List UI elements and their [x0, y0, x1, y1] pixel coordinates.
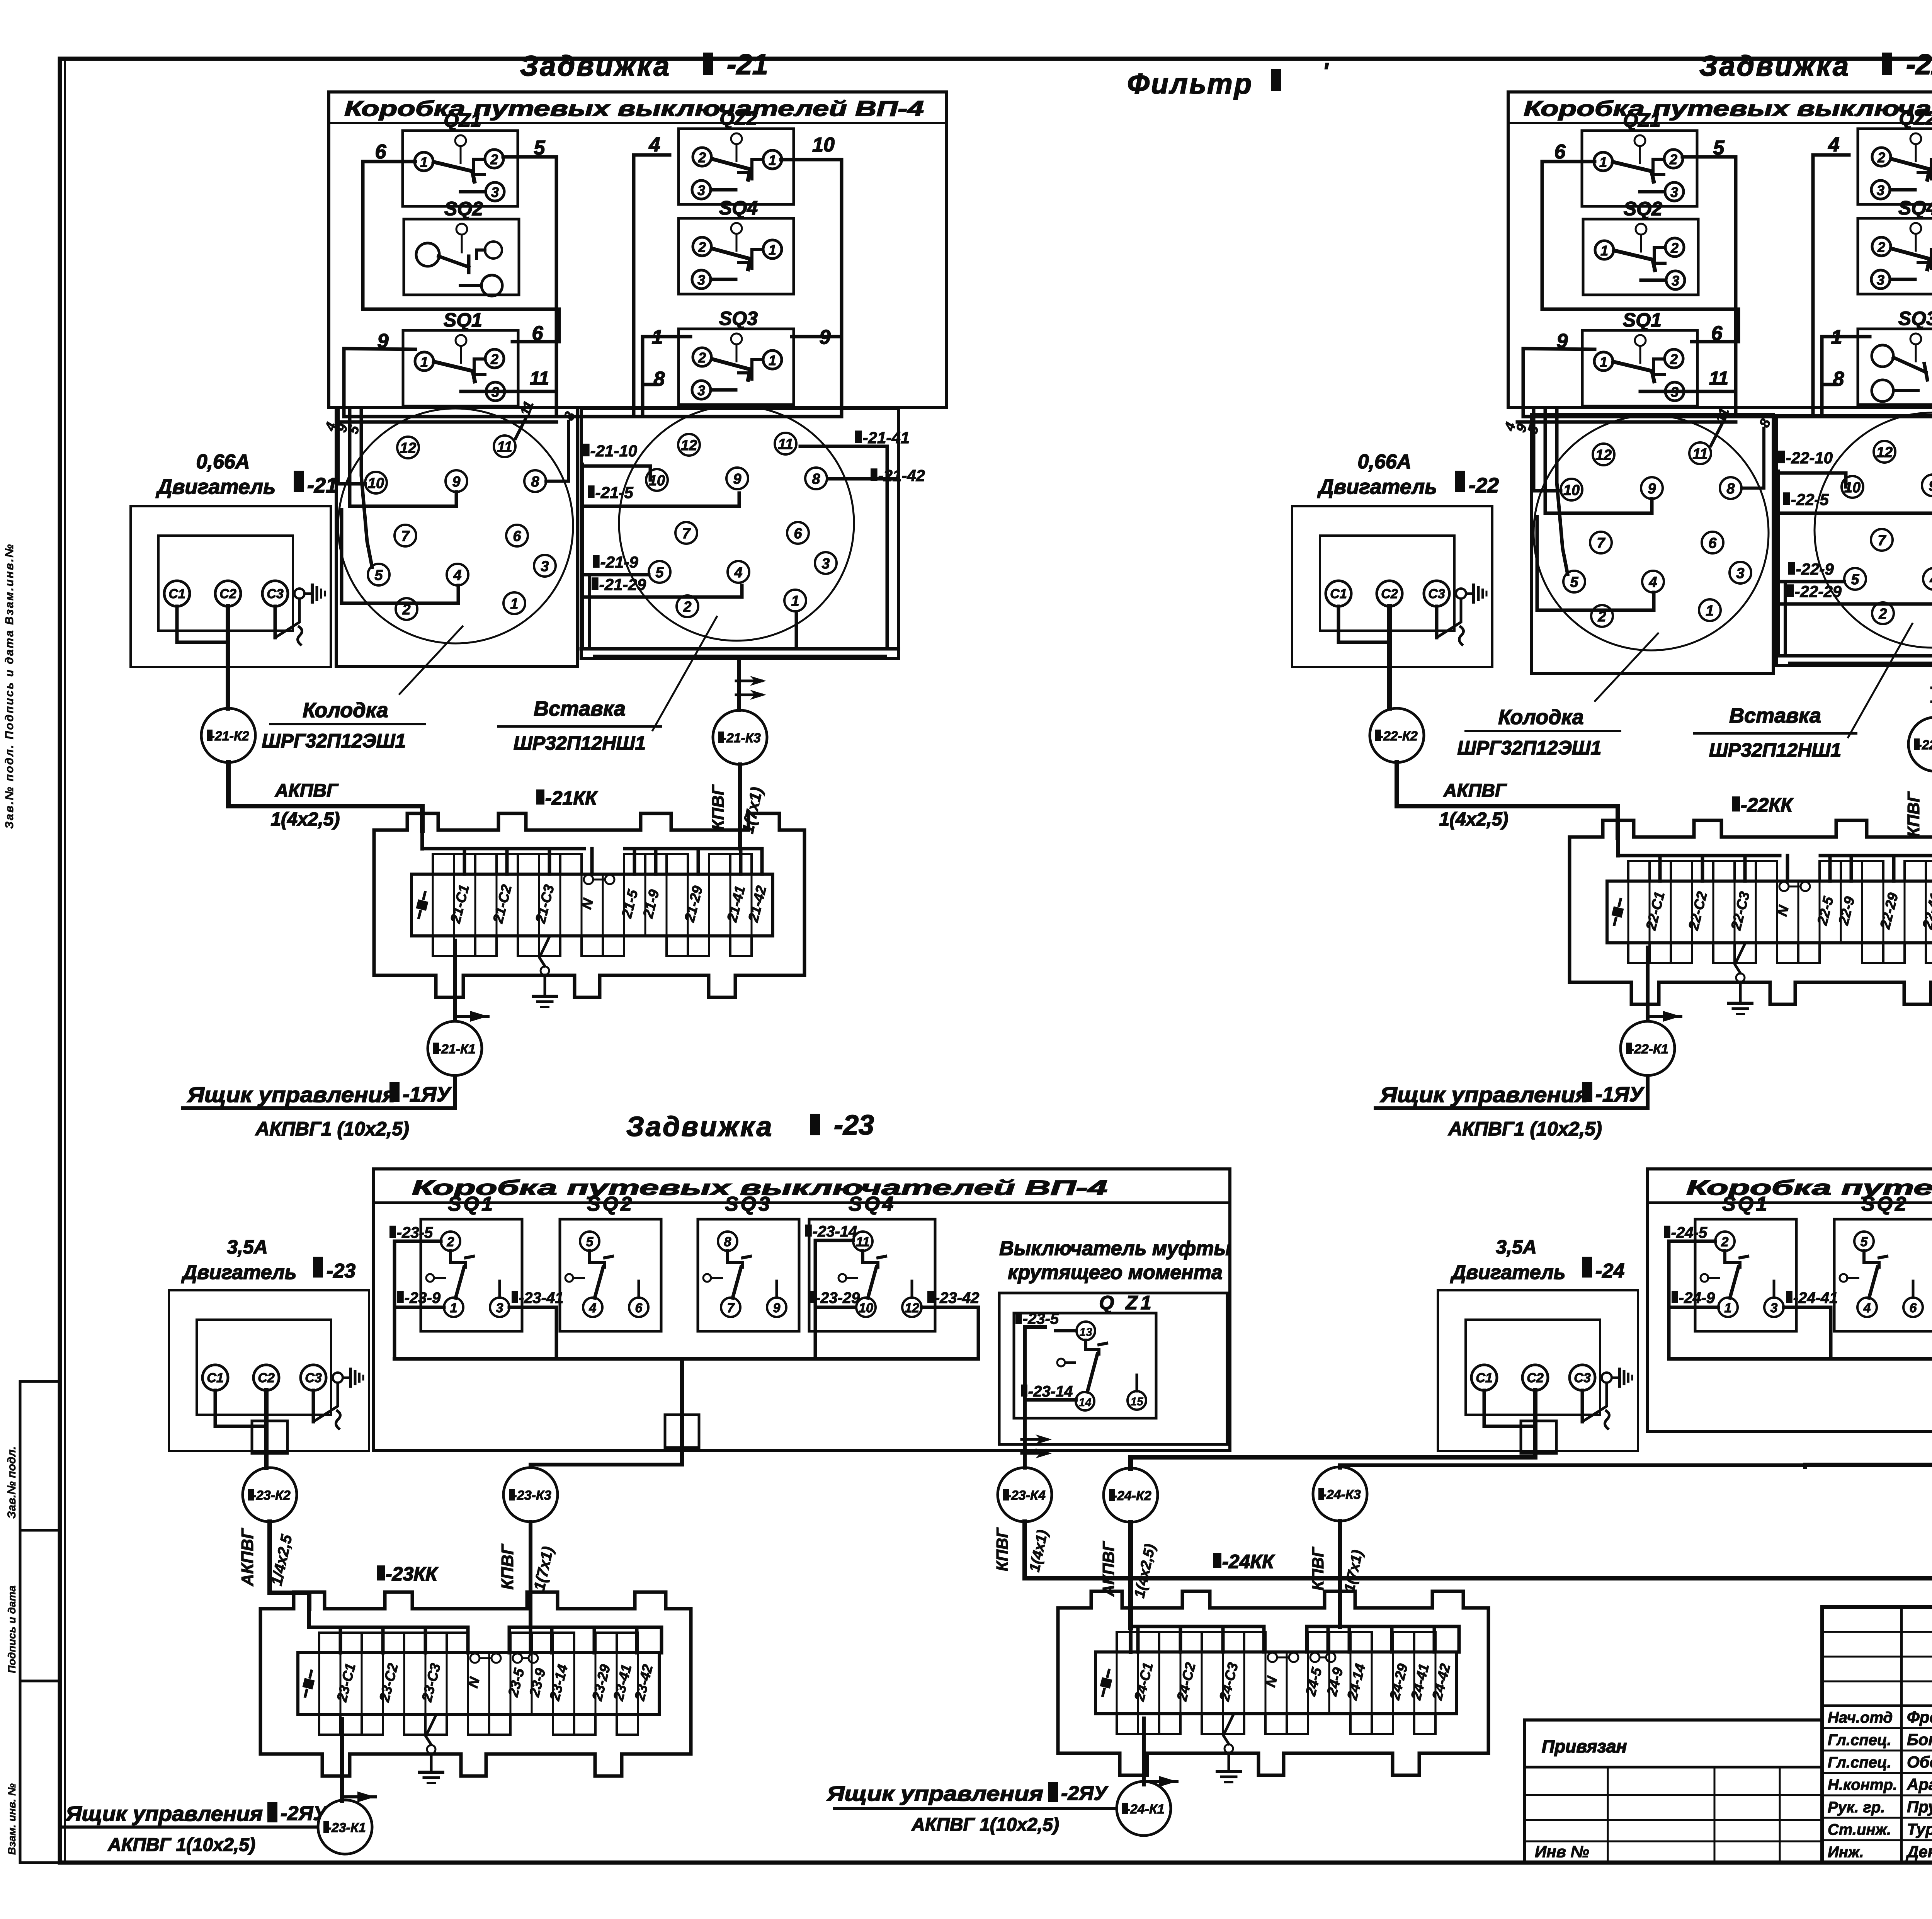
svg-text:-23-29: -23-29 [815, 1290, 860, 1307]
svg-text:11: 11 [530, 368, 549, 389]
svg-text:-21: -21 [727, 48, 768, 80]
svg-text:13: 13 [1079, 1326, 1092, 1339]
svg-text:ШРГ32П12ЭШ1: ШРГ32П12ЭШ1 [1458, 737, 1602, 759]
outgoing cable to control box (-22) [1646, 948, 1650, 1021]
terminal block -24КК feed wires [1129, 1626, 1133, 1652]
svg-text:Ящик управления: Ящик управления [65, 1802, 263, 1825]
svg-text:3: 3 [1770, 1301, 1778, 1315]
svg-text:5: 5 [1570, 574, 1578, 590]
svg-text:-21-К3: -21-К3 [722, 731, 761, 745]
svg-text:SQ2: SQ2 [1861, 1193, 1908, 1215]
svg-text:-21-42: -21-42 [878, 466, 925, 485]
cable marker -21-К2 [226, 667, 230, 708]
svg-text:2: 2 [1670, 240, 1679, 256]
svg-text:0,66А: 0,66А [196, 451, 250, 473]
svg-text:-21-5: -21-5 [595, 483, 634, 502]
svg-text:SQ4: SQ4 [1898, 197, 1932, 219]
svg-text:-22: -22 [1469, 474, 1499, 497]
svg-text:5: 5 [586, 1235, 594, 1249]
terminal labels at switches (-24) [1664, 1226, 1670, 1238]
svg-text:Привязан: Привязан [1542, 1736, 1627, 1756]
svg-text:4: 4 [649, 134, 660, 156]
svg-text:14: 14 [1078, 1396, 1092, 1409]
wiring of switch row (-24) [1669, 1240, 1715, 1243]
svg-text:12: 12 [400, 440, 416, 456]
svg-text:3: 3 [491, 184, 499, 200]
svg-text:-23-К1: -23-К1 [327, 1820, 366, 1835]
terminal block feed wires (-22) [1616, 838, 1620, 856]
svg-text:8: 8 [654, 368, 665, 390]
svg-text:4: 4 [589, 1301, 597, 1315]
svg-text:-1ЯУ: -1ЯУ [1595, 1083, 1645, 1106]
svg-text:4: 4 [1648, 574, 1657, 590]
leader line and label Колодка -21 [400, 626, 463, 694]
wiring of switch row (-23) [395, 1240, 441, 1243]
terminal block -23КК [260, 1592, 691, 1776]
svg-text:Двигатель: Двигатель [1450, 1261, 1565, 1284]
svg-text:Фролов: Фролов [1907, 1708, 1932, 1726]
svg-text:-23-К2: -23-К2 [252, 1488, 291, 1503]
svg-text:7: 7 [1878, 532, 1886, 549]
svg-text:9: 9 [452, 474, 460, 490]
svg-text:4: 4 [1828, 134, 1840, 156]
svg-text:1: 1 [1600, 354, 1607, 370]
limit-switch box ВП-4 (Задвижка -24) [1648, 1169, 1932, 1432]
terminal block -23КК feed wires [307, 1609, 311, 1627]
svg-text:Обозная: Обозная [1907, 1753, 1932, 1771]
cable marker -24-К3 and lead [1340, 1445, 1932, 1468]
outgoing cable to control box (-21) [453, 941, 457, 1021]
svg-text:Двигатель: Двигатель [181, 1261, 296, 1284]
outgoing cable to control box -24 [1142, 1718, 1146, 1785]
svg-text:С3: С3 [267, 587, 284, 601]
svg-text:2: 2 [1877, 239, 1885, 255]
svg-text:АКПВГ1 (10х2,5): АКПВГ1 (10х2,5) [255, 1118, 409, 1140]
svg-text:-23: -23 [327, 1260, 355, 1282]
svg-text:-24-5: -24-5 [1671, 1224, 1708, 1241]
svg-text:-23: -23 [834, 1110, 874, 1141]
terminal block feed wires (-21) [420, 831, 424, 849]
outgoing cable to control box -23 [340, 1719, 344, 1801]
svg-text:С2: С2 [258, 1371, 275, 1385]
cable АКПВГ run to terminal block (-22) [1397, 762, 1618, 838]
svg-text:2: 2 [1721, 1235, 1729, 1249]
svg-text:-22-9: -22-9 [1796, 560, 1834, 578]
svg-text:5: 5 [1851, 572, 1859, 588]
svg-text:9: 9 [1929, 478, 1932, 494]
cable marker -22-К2 [1387, 667, 1392, 708]
svg-text:1: 1 [510, 596, 518, 612]
svg-text:SQ2: SQ2 [1624, 198, 1662, 219]
svg-text:Задвижка: Задвижка [626, 1111, 774, 1142]
svg-text:QZ1: QZ1 [1623, 109, 1660, 131]
svg-text:АКПВГ: АКПВГ [238, 1528, 257, 1586]
cable marker -23-К1 [318, 1800, 372, 1854]
svg-text:6: 6 [1910, 1301, 1917, 1315]
svg-text:11: 11 [1709, 368, 1728, 389]
svg-text:-1ЯУ: -1ЯУ [403, 1083, 452, 1106]
plug connector Колодка -22 [1534, 415, 1769, 650]
svg-text:-22: -22 [1906, 48, 1932, 80]
title block revision table [1822, 1631, 1932, 1633]
svg-text:С2: С2 [219, 587, 236, 601]
svg-text:2: 2 [698, 150, 706, 165]
svg-text:SQ4: SQ4 [849, 1193, 896, 1215]
svg-text:Арансон: Арансон [1906, 1775, 1932, 1793]
svg-text:8: 8 [812, 471, 820, 487]
connector housing rectangle right (-21) [581, 408, 898, 658]
svg-text:3,5А: 3,5А [227, 1236, 268, 1258]
svg-text:SQ3: SQ3 [719, 308, 758, 329]
svg-text:1: 1 [1599, 154, 1607, 170]
svg-text:-23-К4: -23-К4 [1007, 1488, 1046, 1503]
svg-text:-23КК: -23КК [386, 1563, 439, 1585]
svg-text:2: 2 [447, 1235, 454, 1249]
svg-text:С1: С1 [207, 1371, 223, 1385]
limit-switch box ВП-4 (Задвижка -23) [373, 1169, 1230, 1450]
terminal block -24КК ground [1223, 1715, 1233, 1744]
cable marker -22-К1 [1621, 1021, 1675, 1075]
svg-text:-21-41: -21-41 [863, 429, 910, 447]
svg-text:Пруткова: Пруткова [1907, 1798, 1932, 1816]
connector housing rectangle right (-22) [1777, 415, 1932, 665]
svg-text:АКПВГ: АКПВГ [1099, 1541, 1117, 1597]
svg-text:SQ2: SQ2 [587, 1193, 634, 1215]
svg-text:12: 12 [1876, 444, 1893, 461]
svg-text:-22-29: -22-29 [1795, 582, 1842, 601]
svg-text:Инв №: Инв № [1535, 1842, 1589, 1861]
svg-text:-22-К2: -22-К2 [1379, 729, 1418, 743]
svg-text:10: 10 [859, 1301, 873, 1315]
terminal block -21КК [374, 813, 804, 997]
svg-text:Коробка путевых выключат: Коробка путевых выключателей ВП-4 [1524, 96, 1932, 121]
svg-text:Вставка: Вставка [1729, 704, 1821, 727]
svg-text:АКПВГ1 (10х2,5): АКПВГ1 (10х2,5) [1447, 1118, 1602, 1140]
limit-switch box ВП-4 (Задвижка -21) [329, 92, 947, 408]
svg-text:Зав.№ подл.: Зав.№ подл. [5, 1446, 18, 1519]
svg-text:-22-К1: -22-К1 [1630, 1042, 1668, 1056]
svg-text:-24-К3: -24-К3 [1322, 1487, 1361, 1502]
wiring inside switch box -22 [1542, 162, 1738, 342]
svg-text:АКПВГ 1(10х2,5): АКПВГ 1(10х2,5) [107, 1835, 255, 1855]
svg-text:Вставка: Вставка [534, 697, 626, 720]
svg-text:-23-5: -23-5 [397, 1224, 433, 1241]
svg-text:КПВГ: КПВГ [1904, 791, 1923, 837]
svg-text:12: 12 [681, 437, 697, 454]
svg-text:3,5А: 3,5А [1496, 1236, 1537, 1258]
svg-text:11: 11 [778, 436, 793, 453]
connector housing rectangle left (-22) [1532, 415, 1773, 674]
cable marker -23-К4 [998, 1468, 1052, 1522]
svg-text:SQ1: SQ1 [448, 1193, 495, 1215]
svg-text:С2: С2 [1527, 1371, 1544, 1385]
plug connector Вставка -21 [619, 406, 854, 641]
svg-text:5: 5 [374, 567, 383, 584]
svg-text:2: 2 [698, 239, 706, 255]
svg-text:6: 6 [794, 526, 802, 542]
svg-text:-22-10: -22-10 [1786, 449, 1833, 467]
wires/labels to right connector pins (-21) [583, 444, 590, 456]
svg-text:1: 1 [769, 152, 776, 168]
svg-text:2: 2 [698, 350, 706, 366]
svg-text:-21: -21 [307, 474, 337, 497]
svg-text:Ящик управления: Ящик управления [1379, 1082, 1589, 1107]
svg-text:7: 7 [727, 1301, 735, 1315]
leader line and label Вставка -22 [1848, 624, 1912, 737]
svg-text:3: 3 [697, 383, 705, 398]
svg-text:Рук. гр.: Рук. гр. [1828, 1799, 1885, 1816]
svg-text:Задвижка: Задвижка [520, 50, 671, 82]
svg-text:-21-29: -21-29 [599, 575, 646, 594]
svg-text:С3: С3 [1574, 1371, 1591, 1385]
svg-text:С2: С2 [1381, 587, 1398, 601]
terminal block ground (-22) [1735, 944, 1745, 973]
svg-text:С3: С3 [1428, 587, 1445, 601]
cable marker -21-К1 [428, 1021, 482, 1075]
svg-text:Выключатель муфты: Выключатель муфты [999, 1237, 1231, 1260]
terminal block -24КК [1058, 1591, 1488, 1775]
svg-text:1: 1 [791, 593, 799, 609]
svg-text:-24-41: -24-41 [1793, 1290, 1838, 1307]
svg-text:2: 2 [1670, 351, 1678, 367]
motor box Двигатель -21 [131, 506, 331, 667]
wires to left connector pins (-22) [1711, 424, 1722, 446]
svg-text:-21-К2: -21-К2 [211, 729, 249, 743]
svg-text:5: 5 [655, 565, 664, 581]
motor box Двигатель -23 [169, 1290, 369, 1451]
title block signature rows [1822, 1727, 1932, 1729]
svg-text:SQ3: SQ3 [1898, 308, 1932, 329]
svg-text:10: 10 [812, 134, 835, 156]
svg-text:2: 2 [1877, 150, 1885, 165]
svg-text:1(4х2,5): 1(4х2,5) [271, 809, 340, 830]
svg-text:SQ2: SQ2 [444, 198, 483, 219]
cable marker -24-К1 [1117, 1781, 1171, 1836]
svg-text:КПВГ: КПВГ [993, 1527, 1011, 1571]
svg-text:1: 1 [450, 1301, 457, 1315]
svg-text:4: 4 [1863, 1301, 1871, 1315]
svg-text:8: 8 [1833, 368, 1844, 390]
svg-text:3: 3 [1877, 182, 1884, 198]
wires to left connector pins (-21) [515, 417, 527, 439]
plug connector Вставка -22 [1815, 413, 1932, 648]
terminal block -23КК ground [426, 1715, 436, 1745]
svg-text:Туркот: Туркот [1907, 1820, 1932, 1838]
svg-text:6: 6 [513, 528, 521, 544]
motor box Двигатель -22 [1292, 506, 1492, 667]
svg-text:1: 1 [420, 154, 428, 170]
svg-text:1: 1 [420, 354, 428, 370]
svg-text:-23-42: -23-42 [935, 1290, 980, 1307]
svg-text:Двигатель: Двигатель [1317, 475, 1437, 498]
svg-text:Q Z1: Q Z1 [1099, 1292, 1154, 1313]
wiring inside switch box -21 [363, 162, 559, 342]
svg-text:QZ2: QZ2 [719, 107, 757, 129]
svg-text:5: 5 [1861, 1235, 1868, 1249]
svg-text:2: 2 [490, 351, 498, 367]
svg-text:12: 12 [1595, 447, 1612, 463]
svg-text:-23-41: -23-41 [519, 1290, 564, 1307]
junction below motor (-24) [1521, 1421, 1556, 1453]
svg-text:Зав.№ подл. Подпись и дата: Зав.№ подл. Подпись и дата Взам.инв.№ [3, 543, 16, 829]
svg-text:6: 6 [1554, 141, 1566, 163]
plug connector Колодка -21 [338, 408, 573, 643]
svg-text:Двигатель: Двигатель [156, 475, 276, 498]
terminal labels at switches (-23) [389, 1226, 396, 1238]
svg-text:2: 2 [1878, 606, 1887, 622]
left margin stamp boxes [20, 1381, 60, 1863]
svg-text:Взам. инв. №: Взам. инв. № [6, 1783, 18, 1855]
svg-text:Ящик управления: Ящик управления [187, 1082, 396, 1107]
terminal block label -24КК [1213, 1553, 1221, 1568]
svg-text:АКПВГ: АКПВГ [1443, 781, 1507, 801]
svg-text:3: 3 [697, 182, 705, 198]
svg-text:ШРГ32П12ЭШ1: ШРГ32П12ЭШ1 [262, 730, 406, 752]
svg-text:-24-К2: -24-К2 [1113, 1489, 1151, 1503]
svg-text:Фильтр: Фильтр [1127, 68, 1253, 100]
torque switch QZ1 box (-23) [999, 1293, 1227, 1444]
cable marker -24-К2 and lead from motor -24 [1131, 1453, 1535, 1469]
svg-text:1: 1 [769, 242, 776, 258]
terminal block -22КК [1570, 820, 1932, 1004]
cable АКПВГ run to terminal block (-21) [228, 762, 422, 831]
svg-text:-21-К1: -21-К1 [437, 1042, 476, 1056]
svg-text:Колодка: Колодка [303, 699, 388, 722]
svg-text:2: 2 [1669, 151, 1677, 167]
svg-text:Н.контр.: Н.контр. [1828, 1776, 1897, 1793]
svg-text:SQ1: SQ1 [1623, 309, 1662, 331]
leader line and label Колодка -22 [1595, 633, 1658, 701]
cable marker -21-К3 [737, 657, 741, 710]
svg-text:Коробка путевых выключат: Коробка путевых выключателей ВП-4 [344, 96, 924, 121]
svg-text:6: 6 [1708, 535, 1717, 551]
svg-text:8: 8 [531, 474, 539, 490]
junction and cable drop to -23-К3 [680, 1359, 684, 1445]
svg-text:КПВГ: КПВГ [498, 1543, 517, 1589]
svg-text:0,66А: 0,66А [1358, 451, 1412, 473]
svg-text:SQ4: SQ4 [719, 197, 758, 219]
svg-text:Бондарь: Бондарь [1907, 1730, 1932, 1749]
Привязан annex block [1523, 1720, 1526, 1863]
svg-text:3: 3 [697, 272, 705, 288]
svg-text:3: 3 [1736, 565, 1744, 582]
svg-text:АКПВГ 1(10х2,5): АКПВГ 1(10х2,5) [911, 1815, 1059, 1835]
svg-text:3: 3 [541, 558, 549, 575]
svg-text:-21КК: -21КК [545, 787, 598, 809]
svg-text:4: 4 [734, 565, 742, 581]
svg-text:С1: С1 [168, 587, 185, 601]
svg-text:SQ3: SQ3 [725, 1193, 772, 1215]
svg-text:крутящего момента: крутящего момента [1008, 1261, 1223, 1284]
junction below motor (-23) [252, 1421, 287, 1453]
svg-text:КПВГ: КПВГ [709, 784, 728, 830]
svg-text:-23-9: -23-9 [405, 1290, 441, 1307]
wires/labels to right connector pins (-22) [1778, 451, 1785, 463]
svg-text:-23-14: -23-14 [813, 1223, 857, 1240]
svg-text:С1: С1 [1476, 1371, 1492, 1385]
svg-text:-23-К3: -23-К3 [513, 1488, 551, 1503]
svg-text:Нач.отд: Нач.отд [1828, 1709, 1893, 1726]
svg-text:-23-14: -23-14 [1028, 1383, 1073, 1400]
svg-text:-23-5: -23-5 [1023, 1310, 1059, 1327]
cable marker -23-К3 [503, 1468, 558, 1522]
svg-text:ШР32П12НШ1: ШР32П12НШ1 [1709, 739, 1841, 761]
svg-text:8: 8 [1726, 481, 1735, 497]
svg-text:1(4х2,5): 1(4х2,5) [1439, 809, 1509, 830]
svg-text:-21-9: -21-9 [600, 553, 639, 571]
svg-text:3: 3 [1670, 184, 1678, 200]
svg-text:4: 4 [453, 567, 461, 584]
svg-text:Инж.: Инж. [1828, 1844, 1864, 1861]
svg-text:11: 11 [1692, 446, 1708, 462]
svg-text:15: 15 [1130, 1395, 1144, 1408]
svg-text:1: 1 [1725, 1301, 1732, 1315]
svg-text:С1: С1 [1330, 587, 1347, 601]
limit-switch box ВП-4 (Задвижка -22) [1508, 92, 1932, 408]
leader line and label Вставка -21 [653, 617, 717, 730]
svg-text:10: 10 [368, 475, 384, 492]
svg-text:-24-9: -24-9 [1679, 1290, 1715, 1307]
svg-text:Денисова: Денисова [1906, 1842, 1932, 1861]
svg-text:7: 7 [401, 528, 410, 544]
svg-text:АКПВГ: АКПВГ [275, 781, 339, 801]
svg-text:-22-5: -22-5 [1791, 490, 1829, 509]
svg-text:Гл.спец.: Гл.спец. [1828, 1732, 1891, 1749]
svg-text:2: 2 [490, 151, 498, 167]
svg-text:8: 8 [724, 1235, 731, 1249]
svg-text:QZ2: QZ2 [1899, 107, 1932, 129]
terminal block label -23КК [377, 1565, 385, 1580]
svg-text:ШР32П12НШ1: ШР32П12НШ1 [514, 732, 646, 754]
svg-text:9: 9 [773, 1301, 781, 1315]
terminal block label -21КК [536, 789, 544, 805]
svg-text:QZ1: QZ1 [444, 109, 481, 131]
svg-text:Колодка: Колодка [1498, 706, 1583, 729]
svg-text:-22-К3: -22-К3 [1918, 738, 1932, 752]
svg-text:-21-10: -21-10 [590, 442, 637, 460]
long horizontal cable run between К4 markers [1025, 1576, 1932, 1580]
terminal block ground (-21) [539, 937, 549, 966]
svg-text:11: 11 [856, 1235, 869, 1249]
svg-text:-24-К1: -24-К1 [1126, 1802, 1165, 1817]
motor box Двигатель -24 [1438, 1290, 1638, 1451]
svg-text:КПВГ: КПВГ [1309, 1546, 1327, 1591]
svg-text:9: 9 [733, 471, 741, 487]
svg-text:-2ЯУ: -2ЯУ [1061, 1782, 1109, 1805]
title block outer frame [1822, 1607, 1932, 1863]
svg-text:': ' [1323, 58, 1329, 84]
connector housing rectangle left (-21) [336, 408, 578, 667]
svg-text:7: 7 [1597, 535, 1605, 551]
svg-text:9: 9 [1648, 481, 1656, 497]
svg-text:Гл.спец.: Гл.спец. [1828, 1754, 1891, 1771]
svg-text:1: 1 [1706, 603, 1714, 619]
svg-text:С3: С3 [305, 1371, 322, 1385]
cable drop to -23-К4 [1023, 1400, 1027, 1468]
svg-text:6: 6 [375, 141, 387, 163]
svg-text:12: 12 [905, 1301, 919, 1315]
svg-text:3: 3 [496, 1301, 503, 1315]
svg-text:7: 7 [682, 526, 691, 542]
svg-text:-22КК: -22КК [1741, 794, 1794, 816]
svg-text:10: 10 [1563, 482, 1580, 498]
svg-text:SQ1: SQ1 [444, 309, 482, 331]
svg-text:3: 3 [821, 556, 830, 572]
svg-text:3: 3 [1672, 273, 1679, 289]
cable marker -23-К2 and lead [264, 1453, 269, 1468]
svg-text:Ящик управления: Ящик управления [826, 1782, 1043, 1805]
terminal block label -22КК [1732, 796, 1740, 811]
